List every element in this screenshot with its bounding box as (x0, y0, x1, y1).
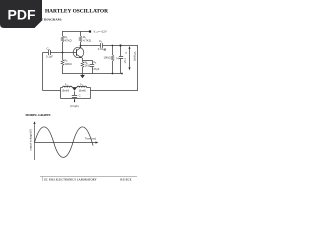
svg-text:(5mH): (5mH) (62, 89, 69, 93)
svg-text:HARTLEY OSCILLATOR: HARTLEY OSCILLATOR (45, 9, 108, 15)
capacitor output branch (116, 44, 125, 74)
svg-text:C: C (79, 93, 81, 97)
svg-text:(5mH): (5mH) (79, 89, 86, 93)
svg-text:1: 1 (67, 85, 68, 87)
ground symbol tank centre tap (72, 88, 77, 96)
footer text (44, 178, 131, 182)
wire output line with capacitor (81, 45, 138, 47)
resistor R (10K) right branch (104, 45, 114, 75)
svg-text:0.1µF: 0.1µF (46, 55, 53, 59)
heading MODEL GRAPH: (26, 113, 51, 117)
svg-text:R: R (104, 48, 106, 52)
svg-text:0.1µF: 0.1µF (123, 58, 125, 64)
graph y-axis (29, 121, 36, 160)
ground symbol below emitter (80, 74, 85, 79)
wire top rail Vcc (62, 31, 90, 33)
svg-text:output voltage(V): output voltage(V) (29, 129, 33, 150)
tank circuit bottom side (61, 98, 91, 100)
transistor Q1 BC107 (73, 46, 84, 61)
svg-text:PDF: PDF (8, 6, 36, 22)
svg-text:in: in (48, 49, 50, 51)
svg-text:47µF: 47µF (93, 67, 100, 71)
svg-text:V0 (p-p): V0 (p-p) (133, 52, 137, 62)
title HARTLEY OSCILLATOR (45, 9, 108, 15)
wire input base line (43, 52, 74, 54)
capacitor CE (47uF) (83, 60, 100, 74)
capacitor CC (0.01uF) (98, 39, 107, 51)
capacitor 0.1uF below tank (70, 99, 79, 108)
capacitor Cin (0.1uF) (46, 46, 53, 58)
svg-text:1KΩ: 1KΩ (85, 64, 90, 68)
svg-text:MODEL GRAPH:: MODEL GRAPH: (26, 113, 51, 117)
svg-text:EC 8361 ELECTRONICS LABORATORY: EC 8361 ELECTRONICS LABORATORY (44, 178, 97, 182)
resistor RC (4.7K) (79, 32, 91, 48)
svg-text:4.7KΩ: 4.7KΩ (83, 38, 91, 42)
resistor R2 (10K) (61, 53, 72, 74)
sine waveform (35, 127, 94, 157)
page background (0, 0, 149, 198)
svg-text:= +12V: = +12V (98, 30, 107, 34)
svg-text:(0.1µF): (0.1µF) (70, 104, 79, 108)
tank circuit left side (60, 88, 62, 99)
svg-text:10KΩ: 10KΩ (65, 62, 72, 66)
PDF badge (0, 0, 42, 28)
wire right edge (137, 46, 139, 91)
resistor RE (1K) (81, 61, 90, 74)
svg-text:B.E/ECE: B.E/ECE (120, 178, 131, 182)
node collector junction (80, 45, 82, 47)
svg-text:10KΩ: 10KΩ (104, 56, 111, 60)
wire bottom rail (62, 73, 123, 75)
tank circuit right side (90, 88, 92, 99)
resistor R1 (47K) (61, 32, 72, 53)
inductor L2 (5mH) (75, 82, 91, 92)
svg-text:(+): (+) (116, 57, 119, 60)
inductor L1 (5mH) (61, 82, 75, 92)
wire tank to right edge (91, 90, 138, 92)
wire left input branch (43, 53, 61, 91)
footer rule (40, 177, 137, 182)
node Vcc terminal square (89, 30, 107, 35)
svg-text:47KΩ: 47KΩ (65, 38, 72, 42)
svg-text:2: 2 (82, 85, 83, 87)
capacitor C tank centre (72, 93, 81, 98)
graph x-axis (35, 137, 99, 143)
output voltage arrow V0 (124, 46, 137, 70)
heading CIRCUIT DIAGRAM: (28, 18, 62, 22)
node base junction (62, 52, 64, 54)
